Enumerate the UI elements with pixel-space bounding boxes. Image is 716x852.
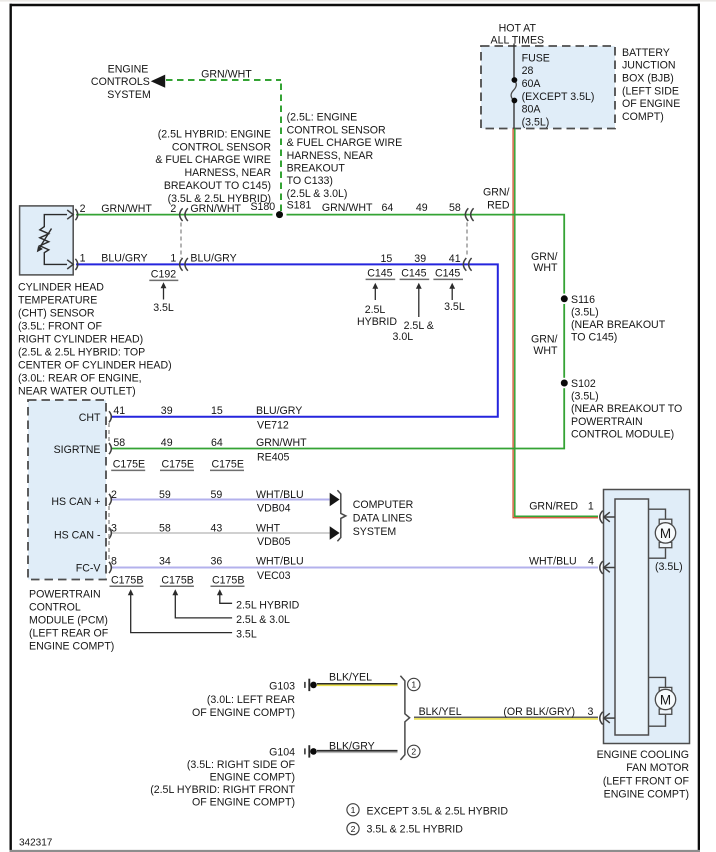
svg-text:1: 1 [170, 253, 176, 265]
svg-text:8: 8 [111, 556, 117, 568]
svg-text:FC-V: FC-V [76, 563, 102, 575]
svg-text:S116: S116 [571, 294, 595, 306]
svg-text:BREAKOUT: BREAKOUT [287, 163, 346, 175]
svg-text:2: 2 [80, 203, 86, 215]
svg-text:RED: RED [487, 199, 510, 211]
svg-text:VE712: VE712 [257, 420, 289, 432]
svg-text:GRN/RED: GRN/RED [529, 501, 578, 513]
svg-text:2: 2 [351, 824, 356, 834]
svg-text:OF ENGINE: OF ENGINE [622, 98, 680, 110]
svg-text:HARNESS, NEAR: HARNESS, NEAR [184, 167, 271, 179]
svg-text:15: 15 [211, 405, 223, 417]
svg-text:(3.5L): (3.5L) [655, 561, 683, 573]
svg-text:49: 49 [161, 437, 173, 449]
svg-text:39: 39 [414, 253, 426, 265]
svg-text:CONTROL SENSOR: CONTROL SENSOR [287, 124, 386, 136]
svg-text:M: M [660, 526, 671, 541]
svg-text:ENGINE COOLING: ENGINE COOLING [597, 749, 689, 761]
svg-text:RE405: RE405 [257, 451, 289, 463]
svg-text:36: 36 [211, 556, 223, 568]
svg-text:43: 43 [211, 523, 223, 535]
svg-text:BREAKOUT TO C145): BREAKOUT TO C145) [164, 180, 271, 192]
svg-text:OF ENGINE COMPT): OF ENGINE COMPT) [192, 797, 295, 809]
svg-text:4: 4 [588, 556, 594, 568]
svg-text:WHT: WHT [256, 523, 281, 535]
svg-text:15: 15 [381, 253, 393, 265]
svg-text:POWERTRAIN: POWERTRAIN [571, 416, 643, 428]
svg-text:GRN/WHT: GRN/WHT [190, 203, 241, 215]
svg-text:S180: S180 [250, 201, 275, 213]
svg-text:3.5L & 2.5L HYBRID: 3.5L & 2.5L HYBRID [367, 824, 464, 836]
svg-text:(3.5L: FRONT OF: (3.5L: FRONT OF [18, 320, 103, 332]
svg-text:ENGINE COMPT): ENGINE COMPT) [29, 640, 114, 652]
svg-text:WHT: WHT [533, 262, 558, 274]
svg-text:(3.5L: RIGHT SIDE OF: (3.5L: RIGHT SIDE OF [187, 759, 296, 771]
svg-text:CONTROL MODULE): CONTROL MODULE) [571, 428, 674, 440]
svg-text:BLU/GRY: BLU/GRY [190, 253, 236, 265]
svg-text:(3.0L: LEFT REAR: (3.0L: LEFT REAR [207, 694, 295, 706]
svg-text:GRN/WHT: GRN/WHT [322, 202, 373, 214]
svg-text:MODULE (PCM): MODULE (PCM) [29, 614, 108, 626]
svg-text:SYSTEM: SYSTEM [107, 89, 151, 101]
svg-text:WHT/BLU: WHT/BLU [256, 556, 304, 568]
svg-text:1: 1 [351, 805, 356, 815]
svg-text:2: 2 [170, 203, 176, 215]
svg-text:C145: C145 [367, 268, 392, 280]
svg-text:1: 1 [411, 680, 416, 690]
svg-text:S102: S102 [571, 378, 596, 390]
svg-text:BLK/GRY: BLK/GRY [329, 740, 375, 752]
svg-text:DATA LINES: DATA LINES [353, 513, 413, 525]
svg-text:64: 64 [211, 437, 223, 449]
svg-text:S181: S181 [287, 199, 312, 211]
svg-text:80A: 80A [522, 104, 542, 116]
svg-text:(LEFT SIDE: (LEFT SIDE [622, 85, 679, 97]
svg-text:CHT: CHT [79, 412, 101, 424]
svg-text:41: 41 [113, 405, 125, 417]
svg-text:ENGINE COMPT): ENGINE COMPT) [604, 789, 689, 801]
svg-text:2.5L: 2.5L [365, 304, 386, 316]
svg-text:FUSE: FUSE [522, 52, 550, 64]
svg-text:3: 3 [588, 706, 594, 718]
svg-text:VDB04: VDB04 [257, 502, 291, 514]
svg-text:CONTROL: CONTROL [29, 601, 81, 613]
svg-text:3.5L: 3.5L [236, 629, 257, 641]
svg-text:VEC03: VEC03 [257, 570, 291, 582]
svg-text:POWERTRAIN: POWERTRAIN [29, 588, 101, 600]
svg-text:SIGRTNE: SIGRTNE [54, 444, 101, 456]
svg-text:2.5L & 3.0L: 2.5L & 3.0L [236, 614, 290, 626]
svg-text:58: 58 [449, 202, 461, 214]
svg-text:59: 59 [211, 489, 223, 501]
svg-text:(LEFT REAR OF: (LEFT REAR OF [29, 627, 109, 639]
svg-text:SYSTEM: SYSTEM [353, 526, 397, 538]
svg-text:C145: C145 [401, 268, 426, 280]
svg-text:TEMPERATURE: TEMPERATURE [18, 294, 97, 306]
svg-text:2: 2 [411, 747, 416, 757]
svg-text:GRN/: GRN/ [483, 186, 510, 198]
svg-text:HOT AT: HOT AT [499, 22, 537, 34]
svg-text:3.0L: 3.0L [393, 331, 414, 343]
svg-text:C192: C192 [151, 268, 176, 280]
svg-text:C175E: C175E [212, 459, 244, 471]
svg-text:(EXCEPT 3.5L): (EXCEPT 3.5L) [522, 91, 595, 103]
svg-text:COMPUTER: COMPUTER [353, 499, 414, 511]
svg-text:2: 2 [111, 489, 117, 501]
svg-text:39: 39 [161, 405, 173, 417]
svg-text:TO C145): TO C145) [571, 332, 617, 344]
svg-text:C175E: C175E [162, 459, 194, 471]
svg-text:1: 1 [80, 253, 86, 265]
svg-text:VDB05: VDB05 [257, 536, 291, 548]
svg-text:58: 58 [159, 523, 171, 535]
svg-text:34: 34 [159, 556, 171, 568]
svg-text:49: 49 [416, 202, 428, 214]
svg-text:(2.5L HYBRID: ENGINE: (2.5L HYBRID: ENGINE [158, 128, 271, 140]
svg-text:BLK/YEL: BLK/YEL [329, 671, 372, 683]
svg-text:C175B: C175B [111, 574, 143, 586]
svg-text:(NEAR BREAKOUT TO: (NEAR BREAKOUT TO [571, 403, 682, 415]
svg-text:ENGINE: ENGINE [108, 64, 149, 76]
svg-text:58: 58 [113, 437, 125, 449]
svg-text:HARNESS, NEAR: HARNESS, NEAR [287, 150, 374, 162]
svg-text:GRN/WHT: GRN/WHT [256, 437, 307, 449]
svg-text:RIGHT CYLINDER HEAD): RIGHT CYLINDER HEAD) [18, 333, 143, 345]
svg-text:C175B: C175B [161, 574, 193, 586]
svg-text:C175E: C175E [113, 459, 145, 471]
svg-text:BLK/YEL: BLK/YEL [419, 706, 462, 718]
svg-text:COMPT): COMPT) [622, 111, 664, 123]
svg-text:GRN/WHT: GRN/WHT [101, 203, 152, 215]
svg-text:BLU/GRY: BLU/GRY [256, 405, 302, 417]
svg-text:(2.5L: ENGINE: (2.5L: ENGINE [287, 112, 358, 124]
svg-text:C175B: C175B [212, 574, 244, 586]
svg-text:M: M [660, 692, 671, 707]
svg-text:G103: G103 [269, 681, 295, 693]
svg-text:(2.5L HYBRID: RIGHT FRONT: (2.5L HYBRID: RIGHT FRONT [150, 784, 295, 796]
svg-text:C145: C145 [435, 268, 460, 280]
svg-text:(3.5L): (3.5L) [571, 307, 599, 319]
svg-text:(3.5L): (3.5L) [571, 391, 599, 403]
svg-text:WHT/BLU: WHT/BLU [256, 489, 304, 501]
svg-text:WHT/BLU: WHT/BLU [529, 556, 577, 568]
svg-text:(OR BLK/GRY): (OR BLK/GRY) [503, 706, 575, 718]
svg-text:(CHT) SENSOR: (CHT) SENSOR [18, 307, 95, 319]
svg-text:ALL TIMES: ALL TIMES [491, 35, 545, 47]
svg-text:CONTROLS: CONTROLS [91, 76, 150, 88]
svg-text:(LEFT FRONT OF: (LEFT FRONT OF [603, 775, 690, 787]
svg-text:EXCEPT 3.5L & 2.5L HYBRID: EXCEPT 3.5L & 2.5L HYBRID [367, 806, 509, 818]
svg-text:1: 1 [588, 501, 594, 513]
svg-text:HS CAN -: HS CAN - [54, 530, 101, 542]
svg-text:HS CAN +: HS CAN + [51, 496, 100, 508]
svg-text:ENGINE COMPT): ENGINE COMPT) [210, 772, 295, 784]
svg-text:TO C133): TO C133) [287, 175, 333, 187]
svg-text:(NEAR BREAKOUT: (NEAR BREAKOUT [571, 319, 666, 331]
svg-text:60A: 60A [522, 78, 542, 90]
svg-text:BLU/GRY: BLU/GRY [101, 253, 147, 265]
svg-text:FAN MOTOR: FAN MOTOR [626, 762, 689, 774]
svg-text:CENTER OF CYLINDER HEAD): CENTER OF CYLINDER HEAD) [18, 359, 172, 371]
svg-text:GRN/WHT: GRN/WHT [201, 69, 252, 81]
svg-text:CONTROL SENSOR: CONTROL SENSOR [172, 141, 271, 153]
svg-text:& FUEL CHARGE WIRE: & FUEL CHARGE WIRE [287, 137, 403, 149]
svg-text:BOX (BJB): BOX (BJB) [622, 73, 674, 85]
svg-text:(3.0L: REAR OF ENGINE,: (3.0L: REAR OF ENGINE, [18, 372, 142, 384]
svg-text:JUNCTION: JUNCTION [622, 60, 676, 72]
svg-text:WHT: WHT [533, 345, 558, 357]
svg-text:CYLINDER HEAD: CYLINDER HEAD [18, 281, 104, 293]
svg-text:41: 41 [449, 253, 461, 265]
svg-text:342317: 342317 [19, 838, 53, 849]
svg-text:3: 3 [111, 523, 117, 535]
svg-text:3.5L: 3.5L [153, 302, 174, 314]
svg-text:28: 28 [522, 65, 534, 77]
svg-text:NEAR WATER OUTLET): NEAR WATER OUTLET) [18, 385, 136, 397]
svg-text:3.5L: 3.5L [444, 301, 465, 313]
svg-text:BATTERY: BATTERY [622, 47, 670, 59]
svg-text:OF ENGINE COMPT): OF ENGINE COMPT) [192, 707, 295, 719]
svg-text:2.5L HYBRID: 2.5L HYBRID [236, 599, 300, 611]
svg-text:G104: G104 [269, 747, 295, 759]
svg-text:59: 59 [159, 489, 171, 501]
svg-text:64: 64 [382, 202, 394, 214]
svg-text:(2.5L & 3.0L): (2.5L & 3.0L) [287, 188, 348, 200]
svg-text:HYBRID: HYBRID [357, 316, 397, 328]
svg-text:(2.5L & 2.5L HYBRID: TOP: (2.5L & 2.5L HYBRID: TOP [18, 346, 145, 358]
svg-text:& FUEL CHARGE WIRE: & FUEL CHARGE WIRE [155, 154, 271, 166]
svg-text:(3.5L): (3.5L) [522, 117, 550, 129]
